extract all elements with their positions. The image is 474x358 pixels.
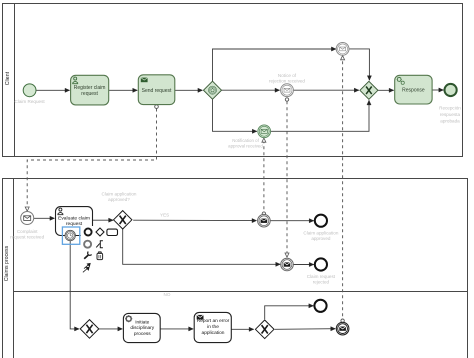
svg-text:aprobada: aprobada: [440, 118, 460, 123]
svg-text:approved?: approved?: [108, 197, 130, 202]
svg-text:Response: Response: [402, 88, 425, 94]
svg-text:Complaint: Complaint: [17, 229, 38, 234]
svg-text:Claim application: Claim application: [303, 231, 338, 236]
svg-text:Claim request: Claim request: [307, 274, 336, 279]
svg-text:Report an error: Report an error: [197, 318, 230, 324]
svg-text:Claims process: Claims process: [4, 245, 10, 281]
svg-text:Initiate: Initiate: [135, 319, 149, 325]
svg-text:application: application: [202, 330, 225, 336]
svg-text:approval received: approval received: [228, 143, 263, 148]
svg-text:respuesta: respuesta: [440, 112, 461, 117]
svg-text:Send request: Send request: [142, 88, 172, 94]
svg-text:process: process: [134, 331, 151, 337]
svg-text:request: request: [81, 91, 98, 97]
svg-text:request received: request received: [10, 235, 44, 240]
svg-text:NO: NO: [164, 292, 171, 297]
svg-text:Claim application: Claim application: [102, 191, 137, 196]
svg-text:Claim Request: Claim Request: [15, 99, 46, 104]
svg-text:request: request: [66, 221, 83, 227]
svg-text:rejected: rejected: [313, 279, 330, 284]
svg-text:Recepción: Recepción: [439, 105, 461, 110]
svg-text:YES: YES: [160, 212, 169, 217]
svg-text:Evaluate claim: Evaluate claim: [58, 215, 90, 221]
svg-text:disciplinary: disciplinary: [130, 325, 154, 331]
svg-text:Notice of: Notice of: [278, 73, 297, 78]
svg-text:in the: in the: [207, 324, 219, 330]
svg-text:approved: approved: [311, 236, 331, 241]
svg-text:Client: Client: [5, 71, 11, 85]
svg-text:rejection received: rejection received: [269, 79, 305, 84]
